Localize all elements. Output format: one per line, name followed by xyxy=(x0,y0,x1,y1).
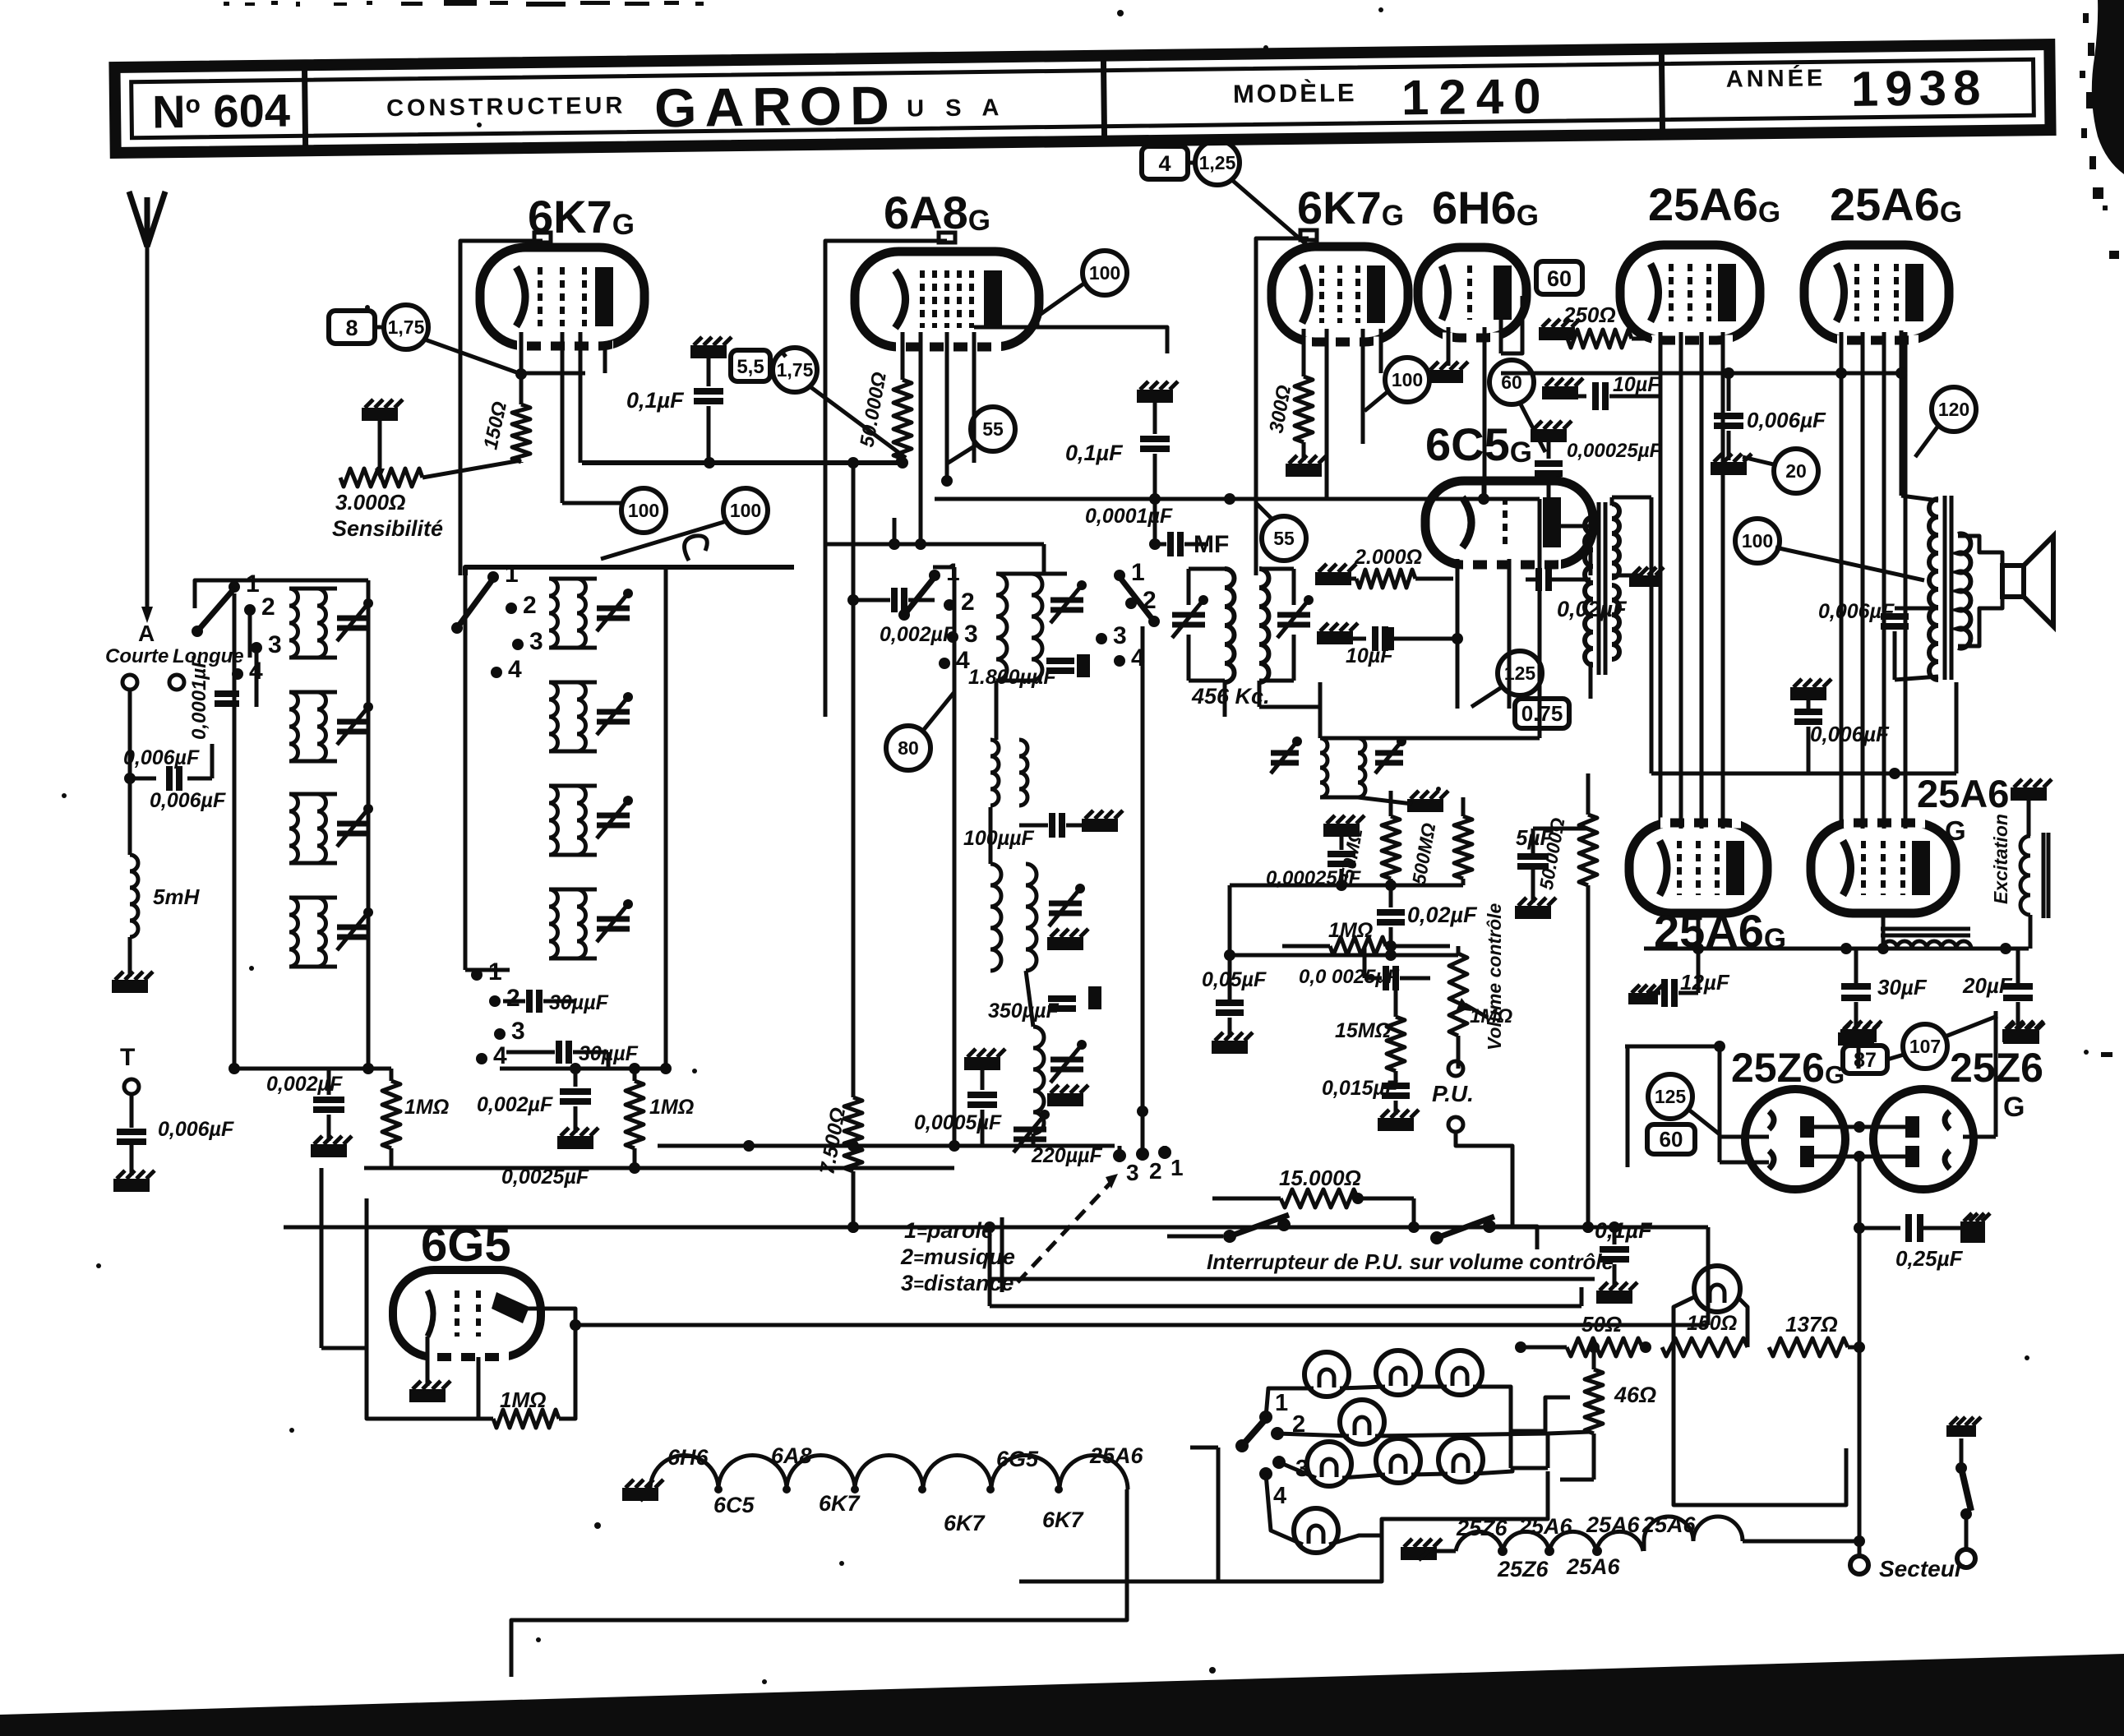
wire xyxy=(477,1357,481,1419)
tag box 60 xyxy=(1536,261,1582,294)
svg-text:2=musique: 2=musique xyxy=(900,1244,1015,1269)
wire xyxy=(130,1143,134,1175)
ground xyxy=(1047,1093,1083,1106)
tube 25Z6G (rectifier a) xyxy=(1745,1089,1845,1189)
wire (25Z6 connections) xyxy=(1625,1045,1720,1049)
wire xyxy=(549,681,597,685)
resistor 1MΩ xyxy=(390,1069,394,1081)
switch (PU inter a) xyxy=(1223,1230,1236,1243)
svg-text:46Ω: 46Ω xyxy=(1614,1383,1656,1407)
tube 25A6G (output a top) xyxy=(1620,245,1760,340)
wire (bus H9) xyxy=(284,1226,1708,1230)
ground xyxy=(1515,906,1551,919)
svg-text:6C5: 6C5 xyxy=(713,1493,755,1517)
lamp (dial r3b) xyxy=(1376,1438,1420,1483)
svg-text:25A6: 25A6 xyxy=(1586,1512,1641,1537)
capacitor 30µµF xyxy=(526,990,533,1013)
svg-text:No 604: No 604 xyxy=(152,84,291,137)
capacitor 1.800µµF xyxy=(1046,658,1074,664)
svg-text:15MΩ: 15MΩ xyxy=(1335,1019,1391,1042)
rotary switch S2 contacts xyxy=(1259,1410,1272,1424)
svg-text:100µµF: 100µµF xyxy=(963,827,1035,850)
trimmer capacitor C2a xyxy=(597,606,630,612)
lamp (dial r3c) xyxy=(1438,1438,1483,1482)
capacitor 0,006µF (bottom) xyxy=(1794,709,1822,715)
tag circle 120 xyxy=(1932,387,1976,432)
svg-text:6K7: 6K7 xyxy=(819,1491,861,1516)
svg-text:0,0005µF: 0,0005µF xyxy=(914,1111,1002,1134)
resistor 1MΩ (2) xyxy=(633,1069,637,1081)
capacitor 0,006µF (screen b) xyxy=(1727,373,1731,411)
wire (6A8 anode to MF1) xyxy=(1036,316,1040,327)
trimmer capacitor (MF2 a) xyxy=(1271,750,1299,756)
svg-text:25Z6: 25Z6 xyxy=(1456,1516,1508,1540)
oscillator coil L3a xyxy=(996,574,1007,681)
oscillator coil L3d xyxy=(1033,1027,1044,1133)
svg-text:U S A: U S A xyxy=(907,95,1007,122)
scan artifact: small speck right edge xyxy=(2101,1052,2112,1057)
svg-text:CONSTRUCTEUR: CONSTRUCTEUR xyxy=(386,93,626,122)
wire (pins of top output tubes down) xyxy=(1659,332,1663,829)
interstage transformer secondary xyxy=(1612,504,1619,578)
wire (bus H10) xyxy=(990,1277,1595,1281)
capacitor 350µµF xyxy=(1048,995,1076,1002)
ground xyxy=(409,1389,446,1402)
capacitor 0,1µF (6K7 screen) xyxy=(690,345,727,358)
ground xyxy=(113,1179,150,1192)
svg-text:55: 55 xyxy=(982,418,1004,440)
wire xyxy=(511,1489,1127,1677)
capacitor 0,00025µF (det) xyxy=(1323,824,1360,837)
aerial coil L1d xyxy=(289,898,298,967)
capacitor 0,006µF (T) xyxy=(117,1129,146,1135)
wire (6C5 grid from H2) xyxy=(1482,482,1486,499)
antenna symbol xyxy=(129,192,147,247)
heater chain right xyxy=(1432,1549,1456,1554)
title block frame with N° 604 / CONSTRUCTEUR GAROD USA / MODÈLE 1240 / ANNÉE 1938', rotated slightly xyxy=(114,44,2050,153)
svg-text:0,006µF: 0,006µF xyxy=(1818,600,1895,623)
wire (6G5 left loop) xyxy=(367,1198,478,1419)
svg-text:8: 8 xyxy=(345,316,358,340)
tube 25A6G (output b) xyxy=(1811,823,1955,913)
svg-text:6H6: 6H6 xyxy=(667,1445,709,1470)
rotary switch S1a contacts 1-4 xyxy=(229,581,240,593)
tag circle 100 (c) xyxy=(1385,358,1429,402)
svg-text:4: 4 xyxy=(1273,1483,1286,1509)
svg-text:125: 125 xyxy=(1655,1086,1687,1107)
svg-text:0.75: 0.75 xyxy=(1521,701,1563,726)
wire xyxy=(549,784,597,788)
tag box 8 xyxy=(329,311,375,344)
ground xyxy=(1407,799,1443,812)
ground xyxy=(2002,1029,2039,1042)
wire (cluster1 left rail) xyxy=(233,593,237,1069)
trimmer capacitor (MF1 prim) xyxy=(1172,612,1205,618)
tag circle 1,75 (b) xyxy=(773,348,817,392)
wire (bus H11, 6G5 line) xyxy=(575,1323,1708,1327)
tube 25A6G (output a) xyxy=(1629,823,1767,913)
ground xyxy=(1838,1032,1874,1046)
wire (tag leader) xyxy=(810,386,906,458)
wire (cluster1 right rail) xyxy=(367,580,371,1069)
svg-text:6K7: 6K7 xyxy=(944,1511,986,1535)
svg-text:5,5: 5,5 xyxy=(736,356,764,378)
wire xyxy=(825,542,1044,547)
wire (lamp return loop) xyxy=(1218,1447,1548,1581)
svg-text:20: 20 xyxy=(1785,460,1807,482)
svg-text:G: G xyxy=(1945,815,1966,846)
trimmer capacitor C2b xyxy=(597,709,630,715)
svg-text:P.U.: P.U. xyxy=(1432,1081,1474,1106)
wire xyxy=(1589,502,1593,522)
resistor 2.000Ω xyxy=(1315,572,1351,585)
resistor 250Ω (heater dropper) xyxy=(1539,327,1575,340)
switch S1c arm xyxy=(904,577,935,615)
svg-text:3.000Ω: 3.000Ω xyxy=(335,490,405,515)
wire xyxy=(289,792,337,796)
svg-text:1: 1 xyxy=(505,561,519,588)
capacitor 0,00025µF xyxy=(1531,429,1567,442)
svg-text:4: 4 xyxy=(1158,151,1171,176)
lamp (dial r1a) xyxy=(1304,1352,1349,1397)
svg-text:1,75: 1,75 xyxy=(388,316,425,338)
wire (V16 secteur rail) xyxy=(1858,1196,1862,1557)
filter choke xyxy=(1881,927,1970,931)
lamp (dial r1c) xyxy=(1438,1350,1482,1395)
ground xyxy=(1378,1118,1414,1131)
wire (B+ to primary) xyxy=(1900,330,1904,496)
terminal P.U. a xyxy=(1448,1061,1463,1076)
wire (6A8 plate feed top) xyxy=(974,325,1069,330)
power switch xyxy=(1946,1425,1976,1437)
svg-text:0,02µF: 0,02µF xyxy=(1407,903,1478,927)
svg-text:A: A xyxy=(138,621,155,646)
switch S3 contacts xyxy=(1113,1149,1126,1162)
oscillator coil L3c xyxy=(990,864,1001,971)
wire (tag leader) xyxy=(422,339,521,374)
wire (lamp row3) xyxy=(1279,1462,1316,1478)
loudspeaker xyxy=(2002,566,2024,597)
wire (osc pin extensions) xyxy=(893,518,897,544)
svg-text:2: 2 xyxy=(261,593,275,621)
output transformer secondary xyxy=(1958,534,1970,649)
tag circle 80 xyxy=(886,726,930,770)
wire (cluster2 top rail) xyxy=(465,567,794,575)
lamp (dial, shunt) xyxy=(1694,1266,1740,1312)
tube 25Z6G (rectifier b) xyxy=(1873,1089,1974,1189)
svg-text:4: 4 xyxy=(493,1042,507,1069)
svg-text:0,002µF: 0,002µF xyxy=(266,1073,343,1096)
wire xyxy=(1456,639,1460,709)
svg-text:25A6: 25A6 xyxy=(1518,1514,1573,1539)
svg-text:137Ω: 137Ω xyxy=(1785,1312,1838,1337)
lamp (dial r1b) xyxy=(1376,1350,1420,1395)
svg-text:1=parole: 1=parole xyxy=(904,1218,994,1243)
svg-text:3=distance: 3=distance xyxy=(901,1271,1014,1295)
capacitor 0,02µF (driver) xyxy=(1535,568,1542,591)
capacitor 0,02µF (af) xyxy=(1389,885,1393,907)
RF coil L2b xyxy=(549,682,558,751)
tube 6K7G (RF amp) xyxy=(480,247,644,346)
svg-text:MF: MF xyxy=(1194,531,1229,558)
switch (PU inter b) xyxy=(1430,1231,1443,1244)
ground (output) xyxy=(1790,687,1826,700)
IF transformer MF1 primary xyxy=(1225,569,1235,682)
svg-text:2: 2 xyxy=(523,592,537,619)
scan artifact: paper specks xyxy=(1117,10,1124,16)
capacitor 0,002µF (osc) xyxy=(891,588,898,612)
wire xyxy=(1674,1347,1846,1505)
capacitor 10µF (cathode) xyxy=(1317,631,1353,644)
heater chain left xyxy=(650,1455,1128,1489)
wire xyxy=(549,888,597,892)
ground xyxy=(1082,819,1118,832)
svg-text:1: 1 xyxy=(1171,1155,1184,1180)
capacitor 12µF xyxy=(1628,993,1658,1004)
wire (lamp row4) xyxy=(1266,1474,1303,1544)
svg-text:10µF: 10µF xyxy=(1613,373,1660,396)
svg-text:30µF: 30µF xyxy=(1877,975,1928,1000)
tag circle 125 (b) xyxy=(1648,1074,1692,1119)
svg-text:1,75: 1,75 xyxy=(777,359,814,381)
resistor 50.000Ω (osc grid) xyxy=(893,380,912,459)
wire xyxy=(465,968,510,972)
lamp (dial r4) xyxy=(1294,1508,1338,1553)
svg-text:0,25µF: 0,25µF xyxy=(1895,1246,1964,1271)
svg-text:4: 4 xyxy=(508,656,522,683)
svg-text:25A6: 25A6 xyxy=(1917,772,2009,815)
tube 25A6G (output b top) xyxy=(1804,245,1949,340)
svg-text:5mH: 5mH xyxy=(153,884,201,909)
svg-text:6G5: 6G5 xyxy=(996,1447,1039,1471)
IF transformer MF1 secondary xyxy=(1259,569,1269,682)
svg-text:107: 107 xyxy=(1909,1036,1941,1057)
wire xyxy=(549,577,597,581)
svg-text:3: 3 xyxy=(529,628,543,655)
interstage transformer primary xyxy=(1585,517,1593,665)
svg-text:3: 3 xyxy=(1126,1160,1139,1185)
wire xyxy=(1325,329,1329,499)
svg-text:6A8: 6A8 xyxy=(771,1443,812,1468)
RF coil L2c xyxy=(549,786,558,855)
svg-text:3: 3 xyxy=(1113,622,1127,649)
ground xyxy=(2011,787,2047,801)
svg-text:25A6: 25A6 xyxy=(1641,1512,1697,1537)
resistor 7.500Ω xyxy=(844,1097,862,1171)
svg-text:1: 1 xyxy=(1275,1390,1288,1416)
rotary switch S1d contacts xyxy=(1114,570,1125,581)
tag box 60 (b) xyxy=(1647,1124,1695,1154)
aerial coil L1b xyxy=(289,692,298,761)
svg-text:1MΩ: 1MΩ xyxy=(649,1096,694,1119)
wire (lamp row2) xyxy=(1277,1434,1349,1436)
rotary switch S1b' contacts (padders) xyxy=(471,969,483,981)
wire xyxy=(1650,497,1654,773)
lamp (dial r2) xyxy=(1340,1400,1384,1444)
tube 6K7G (IF amp) xyxy=(1272,247,1408,342)
svg-text:0,006µF: 0,006µF xyxy=(1747,408,1826,432)
tag circle 100 (d) xyxy=(1735,519,1780,563)
wire (H4 bus) xyxy=(1501,372,1907,376)
wire (6C5 anode out) xyxy=(1555,524,1591,529)
wire (cluster1 top rail) xyxy=(195,580,368,608)
wire (bus H7) xyxy=(658,1144,1115,1148)
svg-text:25Z6: 25Z6 xyxy=(1497,1557,1549,1581)
capacitor 0,006µF (antenna series) xyxy=(166,766,173,791)
tube 6A8G (converter) xyxy=(855,252,1039,347)
wire xyxy=(1153,499,1157,544)
aerial coil L1a xyxy=(289,589,298,658)
capacitor 30µµF (2) xyxy=(556,1041,562,1064)
svg-text:6G5: 6G5 xyxy=(421,1218,511,1272)
switch S1b arm xyxy=(457,579,493,628)
terminal P.U. b xyxy=(1448,1117,1463,1132)
output transformer primary xyxy=(1929,499,1938,680)
wire xyxy=(561,332,565,503)
ground xyxy=(1427,370,1463,383)
svg-text:Excitation: Excitation xyxy=(1990,814,2011,904)
rotary switch S1b contacts xyxy=(487,571,499,583)
wire xyxy=(1483,327,1487,499)
wire (6G5 target lead) xyxy=(526,1309,575,1325)
svg-text:60: 60 xyxy=(1660,1127,1683,1152)
wire xyxy=(1228,885,1232,955)
svg-text:2: 2 xyxy=(506,985,520,1012)
svg-text:0,006µF: 0,006µF xyxy=(158,1118,234,1141)
trimmer capacitor C1a xyxy=(337,616,370,621)
switch S2 arm xyxy=(1242,1419,1266,1446)
ground (heater chain left) xyxy=(622,1488,658,1501)
wire xyxy=(128,937,132,976)
svg-text:0,1µF: 0,1µF xyxy=(1595,1218,1653,1243)
svg-text:0,1µF: 0,1µF xyxy=(1065,441,1124,465)
capacitor 0,006µF (tone) xyxy=(1895,607,1938,611)
ground xyxy=(1596,1290,1632,1304)
svg-text:0,002µF: 0,002µF xyxy=(477,1093,553,1116)
oscillator coil L3b xyxy=(990,740,999,806)
trimmer capacitor (osc a) xyxy=(1050,598,1083,603)
tag box 0.75 xyxy=(1515,699,1569,728)
svg-text:0,0001µF: 0,0001µF xyxy=(1085,505,1173,528)
wire (cluster2 pigtail) xyxy=(685,536,708,561)
ground xyxy=(2003,1031,2039,1044)
capacitor 0,25µF xyxy=(1859,1226,1900,1230)
lamp (dial r3a) xyxy=(1307,1442,1351,1486)
wire (osc vertical) xyxy=(852,463,856,1097)
wire xyxy=(901,459,905,463)
tag circle 60 (a) xyxy=(1489,360,1534,404)
ground xyxy=(1212,1041,1248,1054)
output transformer core xyxy=(1943,496,1947,680)
svg-text:100: 100 xyxy=(1392,369,1423,390)
ground (heater chain right) xyxy=(1401,1547,1437,1560)
svg-text:250Ω: 250Ω xyxy=(1563,302,1616,327)
svg-text:2: 2 xyxy=(961,589,975,616)
tag circle 125 (a) xyxy=(1498,651,1542,695)
svg-text:1.800µµF: 1.800µµF xyxy=(968,666,1056,689)
svg-text:100: 100 xyxy=(628,500,659,521)
svg-text:T: T xyxy=(120,1044,135,1071)
interstage transformer core xyxy=(1597,502,1601,675)
wire (speaker leads) xyxy=(1958,536,2002,566)
wire (B+ bus H5) xyxy=(1644,947,2029,951)
field coil (Excitation) xyxy=(2027,801,2031,836)
svg-text:0,1µF: 0,1µF xyxy=(626,388,685,413)
svg-text:G: G xyxy=(2003,1092,2025,1123)
wire xyxy=(289,690,337,695)
wire (6K7 grid-cap loop) xyxy=(460,241,543,575)
wire (tag leader) xyxy=(1233,181,1307,245)
wire xyxy=(128,690,132,778)
aerial coil L1c xyxy=(289,794,298,863)
trimmer capacitor C1c xyxy=(337,821,370,827)
tag circle 100 (osc) xyxy=(643,510,644,511)
svg-text:1,25: 1,25 xyxy=(1199,152,1236,173)
IF transformer MF2 primary xyxy=(1320,738,1327,797)
wire (cluster1 bottom rail) xyxy=(234,1067,391,1071)
wire (6K7b grid-cap loop) xyxy=(1256,238,1309,575)
svg-text:0,05µF: 0,05µF xyxy=(1202,968,1267,991)
terminal Secteur xyxy=(1850,1556,1868,1574)
ground xyxy=(1840,1029,1877,1042)
svg-text:Volume contrôle: Volume contrôle xyxy=(1484,903,1505,1050)
tube 6G5 (tuning eye) xyxy=(393,1270,541,1357)
wire xyxy=(995,681,999,740)
wire xyxy=(1118,1146,1122,1152)
svg-text:1MΩ: 1MΩ xyxy=(404,1096,449,1119)
potentiometer 3.000Ω Sensibilité xyxy=(340,469,422,487)
svg-text:25A6: 25A6 xyxy=(1089,1443,1144,1468)
rotary switch S1c contacts xyxy=(929,570,940,581)
svg-text:ANNÉE: ANNÉE xyxy=(1726,63,1826,92)
wire xyxy=(364,1166,391,1170)
wire xyxy=(1697,913,1701,949)
tube 6C5G (driver) xyxy=(1425,481,1593,565)
wire xyxy=(1189,567,1225,571)
wire (cathode) xyxy=(519,332,524,404)
wire xyxy=(521,372,585,376)
svg-text:55: 55 xyxy=(1273,528,1295,549)
RF coil L2d xyxy=(549,889,558,958)
switch S1a arm xyxy=(197,589,234,631)
trimmer capacitor C2c xyxy=(597,813,630,819)
wire xyxy=(1320,736,1358,741)
wire xyxy=(1447,327,1451,366)
ground xyxy=(1047,937,1083,950)
potentiometer 1MΩ volume xyxy=(1449,953,1467,1036)
wire xyxy=(1259,567,1294,571)
ground xyxy=(557,1136,593,1149)
svg-text:0,006µF: 0,006µF xyxy=(123,746,200,769)
wire (6A8 grid-cap loop) xyxy=(825,241,947,717)
svg-text:0,00025µF: 0,00025µF xyxy=(1567,440,1663,462)
svg-text:100: 100 xyxy=(1089,262,1120,284)
switch S1d arm xyxy=(1120,577,1154,621)
wire (grid bus H1) xyxy=(582,460,907,465)
wire xyxy=(187,777,212,781)
scan artifact: top-right corner blob xyxy=(2092,0,2124,174)
ground xyxy=(311,1144,347,1157)
wire xyxy=(1302,329,1306,376)
wire (anode drop) xyxy=(603,345,607,373)
wire xyxy=(1533,827,1588,831)
tag circle 1,75 xyxy=(384,305,428,349)
svg-text:Interrupteur de P.U. sur volum: Interrupteur de P.U. sur volume contrôle xyxy=(1207,1249,1614,1274)
wire (H y941) xyxy=(1651,772,1956,776)
tube 6G5 dashed bottom edge xyxy=(427,1352,510,1363)
tag circle 100 (a) xyxy=(621,488,666,533)
tag box 4 xyxy=(1142,146,1188,179)
